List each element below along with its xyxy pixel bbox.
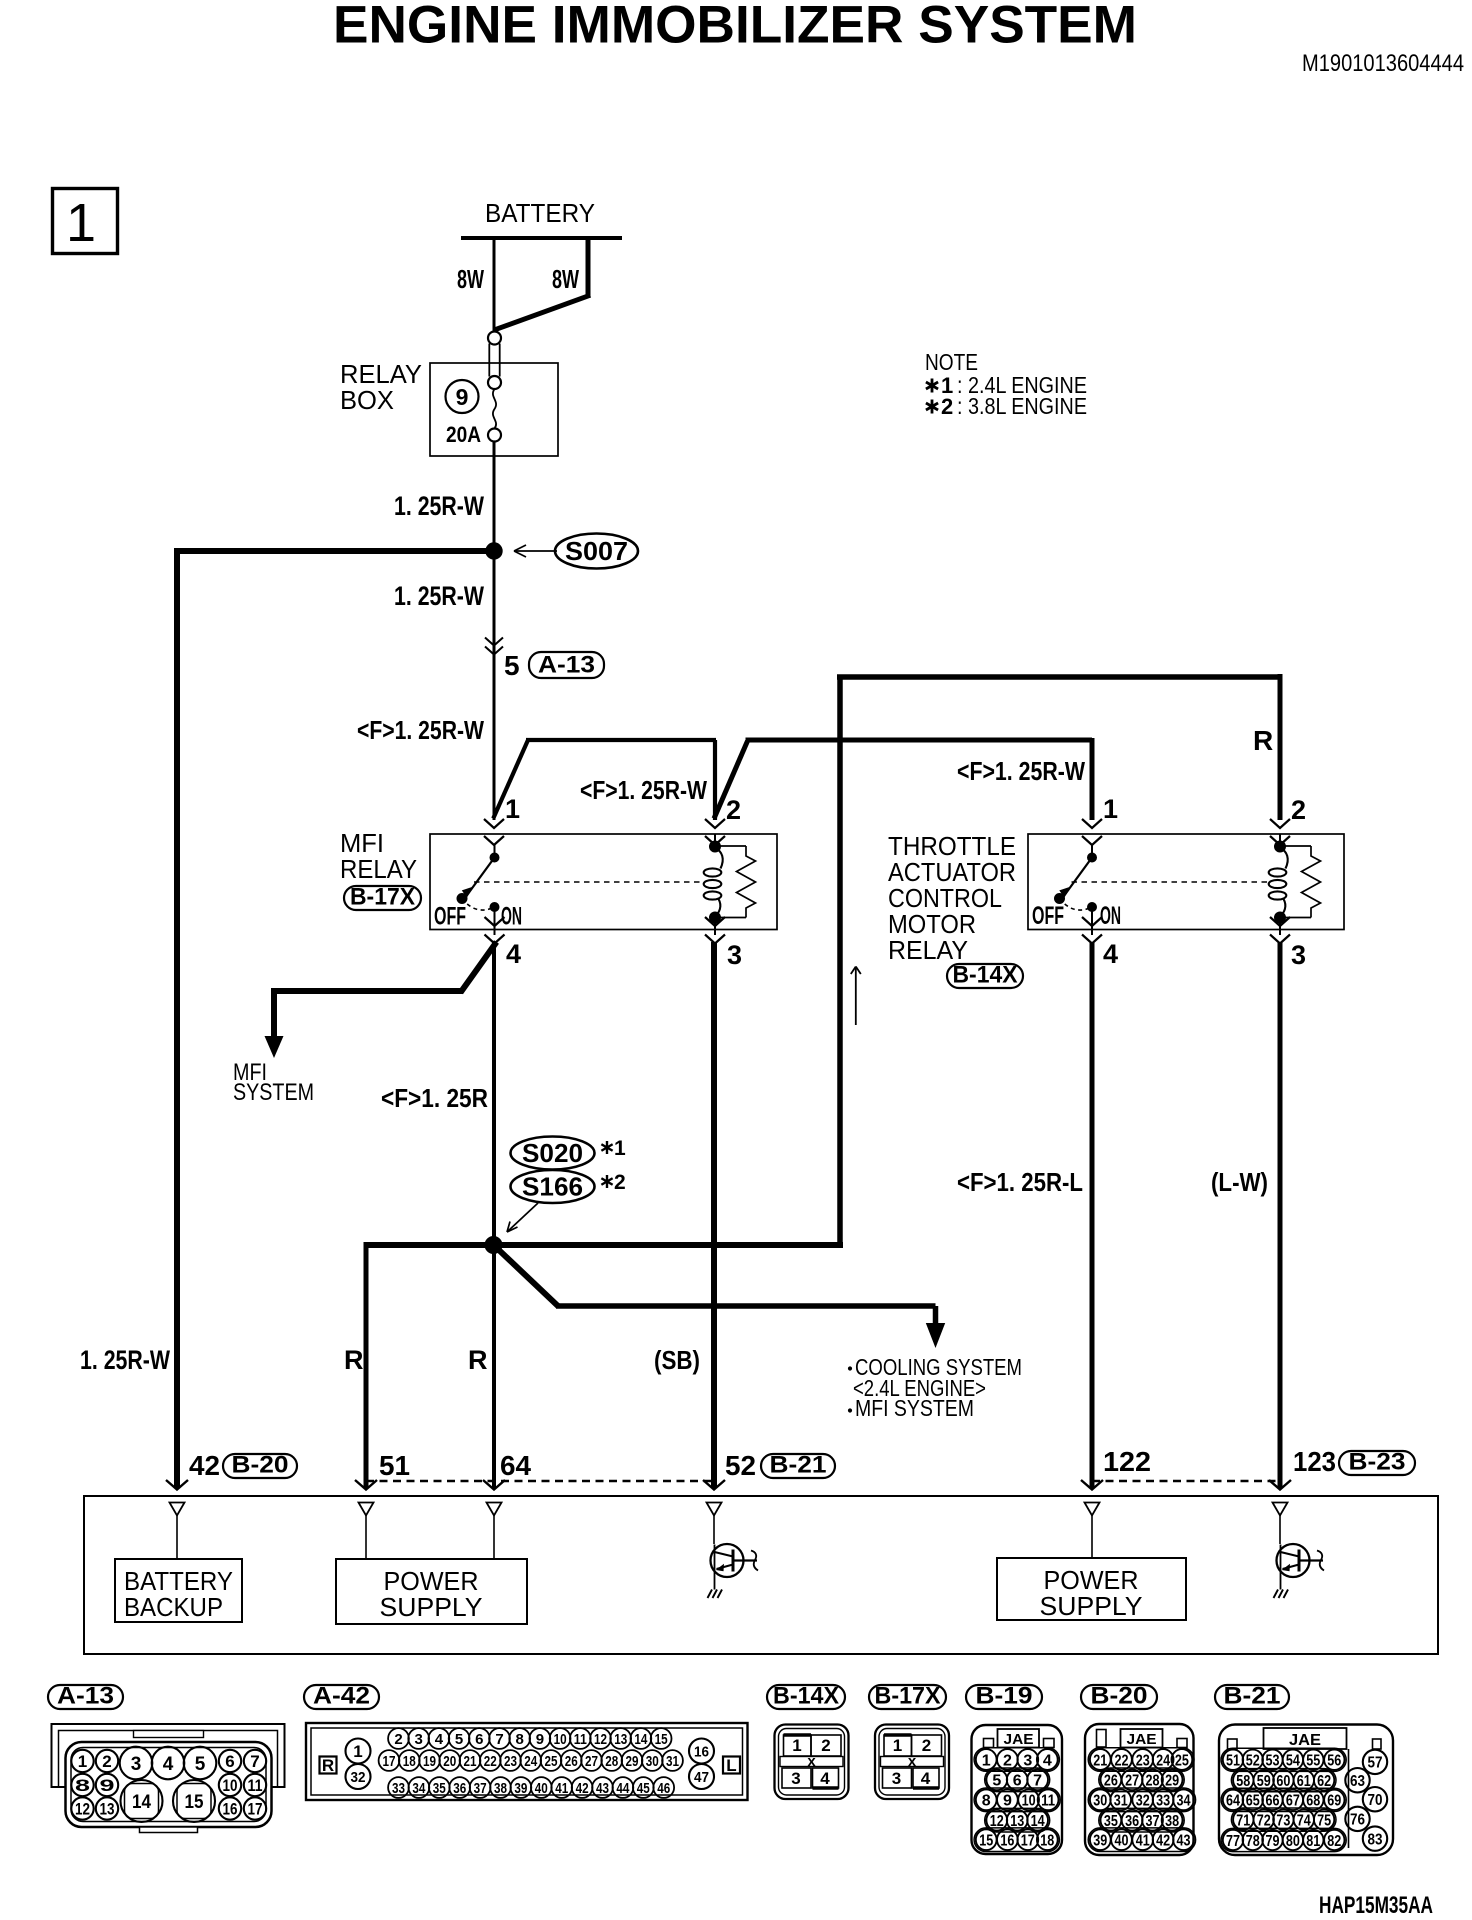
svg-text:19: 19 (423, 1753, 436, 1770)
svg-text:5: 5 (992, 1773, 1001, 1790)
svg-text:22: 22 (1115, 1752, 1129, 1769)
pin 5 label (504, 650, 520, 681)
MFI system arrow (265, 1036, 284, 1058)
svg-text:(L-W): (L-W) (1211, 1167, 1268, 1197)
svg-text:73: 73 (1276, 1812, 1290, 1829)
svg-text:17: 17 (248, 1800, 263, 1819)
throttle relay label (888, 831, 1016, 965)
pin 64 input triangle (487, 1503, 502, 1560)
connector B-19 label (966, 1683, 1042, 1710)
svg-text:ON: ON (501, 903, 522, 931)
svg-text:58: 58 (1236, 1773, 1250, 1790)
splice S020 label (511, 1137, 595, 1170)
svg-text:78: 78 (1246, 1833, 1260, 1850)
svg-text:57: 57 (1368, 1755, 1383, 1772)
svg-text:71: 71 (1236, 1812, 1250, 1829)
svg-text:11: 11 (248, 1776, 263, 1795)
svg-text:: 3.8L ENGINE: : 3.8L ENGINE (957, 393, 1087, 419)
svg-text:30: 30 (1093, 1793, 1107, 1810)
svg-text:A-13: A-13 (57, 1683, 114, 1710)
label F 1.25R (381, 1083, 488, 1113)
splice S007 label (555, 534, 638, 569)
svg-text:4: 4 (163, 1754, 174, 1775)
svg-text:32: 32 (1136, 1793, 1150, 1810)
MFI pin 1 label (505, 794, 520, 824)
svg-text:15: 15 (655, 1731, 668, 1748)
svg-text:B-17X: B-17X (350, 884, 415, 911)
label L-W (1211, 1167, 1268, 1197)
svg-text:70: 70 (1368, 1792, 1383, 1809)
svg-text:RELAY: RELAY (888, 935, 968, 965)
wire MFI pin4 down (492, 942, 496, 1245)
svg-text:8: 8 (75, 1776, 90, 1795)
connector B-14X callout (947, 962, 1023, 989)
svg-text:8W: 8W (457, 264, 484, 294)
svg-text:L: L (726, 1756, 736, 1775)
svg-text:35: 35 (1104, 1813, 1118, 1830)
splice junction dot (485, 1237, 502, 1254)
svg-text:39: 39 (1093, 1832, 1107, 1849)
svg-text:123: 123 (1293, 1446, 1336, 1477)
svg-text:<F>1. 25R: <F>1. 25R (381, 1083, 488, 1113)
wire S007 branch left (177, 548, 497, 554)
note text (925, 349, 1087, 419)
sheet number box 1 (53, 189, 118, 254)
svg-text:36: 36 (453, 1780, 466, 1797)
svg-text:JAE: JAE (1127, 1731, 1157, 1748)
svg-text:30: 30 (646, 1753, 659, 1770)
label F 1.25R-L (957, 1167, 1083, 1197)
svg-text:47: 47 (694, 1769, 709, 1786)
svg-text:83: 83 (1368, 1831, 1383, 1848)
label 8W right (552, 264, 579, 294)
svg-text:34: 34 (412, 1780, 426, 1797)
throttle ON label (1100, 902, 1121, 930)
pin 51 input triangle (359, 1503, 374, 1560)
connector A-13 label (48, 1683, 123, 1710)
svg-text:<F>1. 25R-W: <F>1. 25R-W (957, 756, 1085, 786)
svg-text:SYSTEM: SYSTEM (233, 1079, 314, 1106)
svg-text:42: 42 (576, 1780, 589, 1797)
svg-text:26: 26 (565, 1753, 578, 1770)
throttle OFF label (1032, 902, 1064, 930)
svg-text:76: 76 (1350, 1812, 1365, 1829)
MFI relay dashed link (474, 881, 702, 883)
ECU dashed tie 51-64-52 (366, 1480, 714, 1483)
svg-text:2: 2 (941, 394, 953, 419)
svg-text:ON: ON (1100, 902, 1121, 930)
svg-text:3: 3 (415, 1731, 423, 1748)
svg-text:11: 11 (574, 1731, 587, 1748)
svg-text:52: 52 (725, 1450, 756, 1481)
svg-text:21: 21 (464, 1753, 477, 1770)
svg-text:122: 122 (1103, 1446, 1151, 1477)
svg-text:13: 13 (1010, 1813, 1024, 1830)
transistor output pin 52 (708, 1544, 759, 1598)
svg-text:26: 26 (1104, 1773, 1118, 1790)
throttle pin 4 label (1103, 939, 1118, 969)
svg-text:3: 3 (791, 1769, 800, 1788)
wire pin64 down (492, 1245, 496, 1488)
svg-text:3: 3 (727, 940, 742, 970)
svg-text:41: 41 (1136, 1832, 1150, 1849)
MFI OFF label (434, 903, 466, 931)
svg-text:1. 25R-W: 1. 25R-W (80, 1345, 170, 1375)
svg-text:54: 54 (1286, 1753, 1300, 1770)
svg-text:S166: S166 (522, 1172, 583, 1202)
svg-text:31: 31 (1114, 1793, 1128, 1810)
svg-text:4: 4 (435, 1731, 444, 1748)
svg-text:12: 12 (594, 1731, 607, 1748)
wire junction to throttle pin2 (837, 674, 1280, 1247)
label F 1.25R-W feed (357, 715, 484, 745)
svg-text:B-14X: B-14X (953, 962, 1018, 989)
pin 123 label (1293, 1446, 1336, 1477)
svg-text:A-42: A-42 (313, 1683, 370, 1710)
pin 42 label (189, 1450, 220, 1481)
svg-text:16: 16 (694, 1743, 709, 1760)
throttle pin 2 label (1291, 795, 1306, 825)
svg-text:37: 37 (474, 1780, 487, 1797)
svg-text:1. 25R-W: 1. 25R-W (394, 491, 484, 521)
svg-text:1: 1 (893, 1736, 902, 1755)
MFI ON label (501, 903, 522, 931)
svg-text:S020: S020 (522, 1138, 583, 1168)
svg-text:40: 40 (1115, 1832, 1129, 1849)
svg-text:38: 38 (494, 1780, 507, 1797)
svg-text:4: 4 (506, 939, 521, 969)
wire S007 down (493, 551, 496, 820)
MFI switch (457, 845, 499, 935)
svg-text:44: 44 (616, 1780, 630, 1797)
svg-text:13: 13 (614, 1731, 627, 1748)
label 1.25R-W upper (394, 491, 484, 521)
svg-text:1. 25R-W: 1. 25R-W (394, 581, 484, 611)
MFI pin 3 label (727, 940, 742, 970)
label 20A (446, 422, 481, 447)
pin 52 input triangle (707, 1503, 722, 1545)
connector A-13 pass-through (485, 638, 503, 655)
svg-text:53: 53 (1266, 1753, 1280, 1770)
ECU box (84, 1496, 1438, 1654)
wire throttle pin4 down (1090, 942, 1095, 1488)
pin 123 chevron (1269, 1480, 1291, 1490)
svg-text:81: 81 (1306, 1833, 1320, 1850)
wire throttle pin3 down (1278, 942, 1283, 1488)
svg-text:66: 66 (1266, 1793, 1280, 1810)
svg-text:4: 4 (820, 1769, 830, 1788)
svg-text:33: 33 (1156, 1793, 1170, 1810)
svg-text:27: 27 (585, 1753, 598, 1770)
svg-text:68: 68 (1306, 1793, 1320, 1810)
svg-text:59: 59 (1257, 1773, 1271, 1790)
throttle switch (1055, 845, 1097, 935)
svg-text:10: 10 (223, 1776, 238, 1795)
note ref 2 (601, 1171, 625, 1194)
jumper MFI pin2 to throttle pin1 (714, 738, 1092, 820)
svg-text:16: 16 (223, 1800, 238, 1819)
connector B-21 face view (1219, 1725, 1393, 1856)
svg-text:24: 24 (524, 1753, 538, 1770)
svg-text:5: 5 (504, 650, 520, 681)
svg-text:65: 65 (1246, 1793, 1260, 1810)
svg-text:B-20: B-20 (1091, 1683, 1148, 1710)
svg-text:3: 3 (1023, 1752, 1032, 1769)
MFI pin 1 chevrons (484, 819, 504, 845)
MFI coil (704, 834, 723, 935)
svg-text:27: 27 (1125, 1773, 1139, 1790)
svg-text:R: R (344, 1345, 364, 1375)
svg-text:8: 8 (982, 1793, 991, 1810)
direction arrow up (851, 967, 861, 1026)
svg-text:28: 28 (605, 1753, 618, 1770)
pin 64 chevron (483, 1480, 505, 1490)
label 8W left (457, 264, 484, 294)
throttle pin 1 chevrons (1082, 819, 1102, 845)
svg-text:B-19: B-19 (976, 1683, 1033, 1710)
label 1.25R-W lower (80, 1345, 170, 1375)
svg-text:OFF: OFF (434, 903, 466, 931)
svg-text:43: 43 (1177, 1832, 1191, 1849)
MFI coil resistor (715, 846, 756, 918)
MFI pin 2 label (726, 795, 741, 825)
svg-text:64: 64 (500, 1450, 531, 1481)
svg-text:2: 2 (1003, 1752, 1012, 1769)
splice callout arrow (507, 1203, 538, 1232)
svg-text:34: 34 (1177, 1793, 1191, 1810)
throttle relay box (1028, 834, 1344, 930)
svg-text:63: 63 (1350, 1773, 1365, 1790)
svg-text:15: 15 (979, 1832, 993, 1849)
svg-text:51: 51 (379, 1450, 410, 1481)
svg-text:23: 23 (1136, 1752, 1150, 1769)
svg-text:4: 4 (1043, 1752, 1052, 1769)
svg-text:72: 72 (1257, 1812, 1271, 1829)
svg-text:6: 6 (1013, 1773, 1022, 1790)
battery B+ label (485, 198, 595, 228)
relay box outline (430, 363, 558, 456)
svg-text:18: 18 (403, 1753, 416, 1770)
drawing code (1319, 1892, 1433, 1919)
connector B-21 callout (761, 1452, 835, 1479)
power supply box 1 (336, 1559, 527, 1624)
fuse element (488, 389, 501, 442)
svg-text:3: 3 (131, 1754, 142, 1775)
svg-text:9: 9 (1003, 1793, 1012, 1810)
svg-text:8W: 8W (552, 264, 579, 294)
svg-text:14: 14 (634, 1731, 648, 1748)
wire pin51 down (364, 1242, 369, 1488)
svg-text:9: 9 (536, 1731, 544, 1748)
splice S166 label (511, 1170, 595, 1203)
svg-text:39: 39 (514, 1780, 527, 1797)
MFI pin 4 label (506, 939, 521, 969)
connector A-42 label (304, 1683, 379, 1710)
svg-text:5: 5 (455, 1731, 463, 1748)
wire cooling branch (492, 1243, 936, 1325)
svg-text:38: 38 (1165, 1813, 1179, 1830)
svg-text:29: 29 (626, 1753, 639, 1770)
wire 8W left from battery (493, 238, 496, 331)
MFI relay label (340, 828, 417, 884)
svg-text:82: 82 (1327, 1833, 1341, 1850)
wire junction right (493, 1242, 843, 1248)
svg-text:23: 23 (504, 1753, 517, 1770)
svg-text:31: 31 (666, 1753, 679, 1770)
label R pin51 (344, 1345, 364, 1375)
svg-text:22: 22 (484, 1753, 497, 1770)
svg-text:18: 18 (1040, 1832, 1054, 1849)
svg-text:69: 69 (1327, 1793, 1341, 1810)
svg-text:67: 67 (1286, 1793, 1300, 1810)
svg-text:7: 7 (250, 1752, 259, 1771)
throttle coil (1269, 834, 1288, 935)
svg-text:1: 1 (505, 794, 520, 824)
svg-text:46: 46 (657, 1780, 670, 1797)
MFI system label (233, 1059, 314, 1106)
svg-text:21: 21 (1093, 1752, 1107, 1769)
svg-text:14: 14 (132, 1792, 151, 1813)
transistor output pin 123 (1274, 1544, 1325, 1598)
connector B-14X face view (775, 1725, 849, 1800)
svg-text:1: 1 (78, 1752, 87, 1771)
connector B-14X label (767, 1683, 845, 1710)
throttle coil resistor (1280, 846, 1321, 918)
svg-text:35: 35 (433, 1780, 446, 1797)
svg-text:2: 2 (922, 1736, 931, 1755)
cooling system label (848, 1354, 1022, 1421)
svg-text:7: 7 (1033, 1773, 1042, 1790)
label R top (1253, 725, 1273, 756)
svg-text:24: 24 (1156, 1752, 1170, 1769)
svg-text:7: 7 (495, 1731, 503, 1748)
svg-text:52: 52 (1246, 1753, 1260, 1770)
connector B-21 label (1215, 1683, 1289, 1710)
svg-text:2: 2 (821, 1736, 830, 1755)
label F 1.25R-W throttle feed (957, 756, 1085, 786)
pin 122 chevron (1081, 1480, 1103, 1490)
svg-text:M1901013604444: M1901013604444 (1302, 50, 1464, 77)
pin 42 chevron (166, 1480, 188, 1490)
svg-text:RELAY: RELAY (340, 854, 417, 884)
svg-text:2: 2 (614, 1171, 626, 1194)
svg-text:11: 11 (1041, 1793, 1055, 1810)
svg-text:33: 33 (392, 1780, 405, 1797)
splice S007 dot (486, 543, 502, 559)
connector A-13 callout (529, 652, 604, 679)
pin 51 label (379, 1450, 410, 1481)
connector B-17X callout (344, 884, 421, 911)
connector B-19 face view (972, 1725, 1063, 1854)
pin 64 label (500, 1450, 531, 1481)
svg-text:25: 25 (1175, 1752, 1189, 1769)
cooling arrow (926, 1323, 945, 1348)
wire pin52 down (711, 942, 717, 1488)
ECU dashed tie 122-123 (1092, 1480, 1280, 1483)
svg-text:BACKUP: BACKUP (124, 1592, 223, 1622)
svg-text:MFI SYSTEM: MFI SYSTEM (855, 1395, 974, 1421)
connector A-13 face view (52, 1724, 285, 1833)
svg-text:<F>1. 25R-L: <F>1. 25R-L (957, 1167, 1083, 1197)
svg-text:17: 17 (383, 1753, 396, 1770)
pin 51 chevron (355, 1480, 377, 1490)
MFI pin 2 chevrons (705, 819, 725, 845)
svg-text:12: 12 (990, 1813, 1004, 1830)
svg-text:JAE: JAE (1004, 1731, 1034, 1748)
svg-text:15: 15 (185, 1792, 204, 1813)
connector B-17X label (869, 1683, 946, 1710)
svg-text:SUPPLY: SUPPLY (1040, 1591, 1143, 1621)
connector B-23 callout (1339, 1449, 1415, 1476)
svg-text:1: 1 (614, 1137, 626, 1160)
svg-text:80: 80 (1286, 1833, 1300, 1850)
svg-text:20A: 20A (446, 422, 481, 447)
throttle pin 4 chevrons (1082, 917, 1102, 944)
svg-text:<F>1. 25R-W: <F>1. 25R-W (580, 775, 707, 805)
svg-text:BATTERY: BATTERY (485, 198, 595, 228)
svg-text:HAP15M35AA: HAP15M35AA (1319, 1892, 1433, 1919)
svg-text:OFF: OFF (1032, 902, 1064, 930)
svg-text:45: 45 (637, 1780, 650, 1797)
power supply box 2 (997, 1558, 1186, 1621)
svg-text:6: 6 (225, 1752, 234, 1771)
jumper pin1 to pin2 (493, 740, 716, 820)
title (333, 0, 1137, 55)
svg-text:1: 1 (353, 1742, 362, 1761)
svg-text:8: 8 (516, 1731, 524, 1748)
pin 52 label (725, 1450, 756, 1481)
fuse 9 circle (446, 380, 479, 413)
svg-text:(SB): (SB) (654, 1345, 700, 1375)
svg-text:10: 10 (554, 1731, 567, 1748)
svg-text:41: 41 (555, 1780, 568, 1797)
svg-text:74: 74 (1297, 1812, 1311, 1829)
svg-text:77: 77 (1226, 1833, 1240, 1850)
wire junction left (366, 1242, 494, 1248)
svg-text:ENGINE IMMOBILIZER SYSTEM: ENGINE IMMOBILIZER SYSTEM (333, 0, 1137, 55)
svg-text:25: 25 (545, 1753, 558, 1770)
svg-text:3: 3 (1291, 940, 1306, 970)
connector B-20 callout (223, 1452, 297, 1479)
wire 8W right from battery (494, 238, 591, 330)
svg-text:55: 55 (1306, 1753, 1320, 1770)
svg-text:13: 13 (100, 1800, 115, 1819)
svg-text:64: 64 (1226, 1793, 1240, 1810)
label 1.25R-W mid (394, 581, 484, 611)
svg-text:17: 17 (1021, 1832, 1035, 1849)
svg-text:R: R (468, 1345, 488, 1375)
pin 122 label (1103, 1446, 1151, 1477)
label R pin64 (468, 1345, 488, 1375)
svg-text:1: 1 (66, 193, 96, 253)
svg-text:61: 61 (1297, 1773, 1311, 1790)
svg-text:B-21: B-21 (1224, 1683, 1281, 1710)
connector B-20 face view (1085, 1724, 1196, 1855)
connector B-17X face view (875, 1725, 949, 1800)
svg-text:62: 62 (1317, 1773, 1331, 1790)
svg-text:B-20: B-20 (232, 1452, 289, 1479)
svg-text:56: 56 (1327, 1753, 1341, 1770)
svg-text:40: 40 (535, 1780, 548, 1797)
svg-text:6: 6 (475, 1731, 483, 1748)
svg-text:51: 51 (1226, 1753, 1240, 1770)
svg-text:79: 79 (1266, 1833, 1280, 1850)
throttle pin 1 label (1103, 794, 1118, 824)
throttle pin 3 chevrons (1270, 917, 1290, 944)
svg-text:B-14X: B-14X (773, 1683, 839, 1710)
svg-text:B-17X: B-17X (875, 1683, 941, 1710)
svg-text:1: 1 (1103, 794, 1118, 824)
